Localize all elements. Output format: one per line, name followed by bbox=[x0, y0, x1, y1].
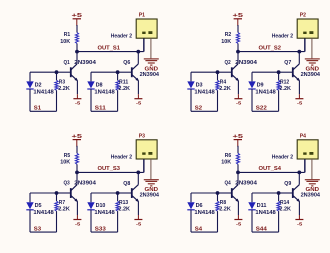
svg-text:S4: S4 bbox=[195, 227, 202, 233]
svg-text:R3: R3 bbox=[59, 79, 65, 85]
svg-text:1N4148: 1N4148 bbox=[94, 210, 114, 216]
svg-text:R2: R2 bbox=[225, 32, 232, 38]
svg-text:OUT_S1: OUT_S1 bbox=[98, 45, 121, 51]
svg-text:R7: R7 bbox=[59, 200, 65, 206]
svg-text:S11: S11 bbox=[95, 106, 106, 112]
svg-text:D10: D10 bbox=[96, 203, 106, 209]
svg-text:-5: -5 bbox=[297, 101, 303, 107]
svg-text:2N3904: 2N3904 bbox=[140, 193, 159, 199]
svg-text:2N3904: 2N3904 bbox=[235, 181, 258, 187]
svg-text:P1: P1 bbox=[139, 13, 145, 19]
svg-text:Header 2: Header 2 bbox=[272, 154, 293, 160]
svg-text:1N4148: 1N4148 bbox=[33, 89, 53, 95]
svg-text:GND: GND bbox=[145, 66, 159, 72]
svg-text:10K: 10K bbox=[60, 160, 70, 166]
svg-text:Q1: Q1 bbox=[64, 60, 70, 66]
svg-text:D8: D8 bbox=[96, 82, 103, 88]
svg-text:-5: -5 bbox=[297, 221, 303, 227]
svg-text:P4: P4 bbox=[300, 134, 306, 140]
svg-text:P3: P3 bbox=[139, 134, 145, 140]
svg-text:D3: D3 bbox=[196, 82, 203, 88]
svg-text:S3: S3 bbox=[34, 227, 41, 233]
svg-text:R13: R13 bbox=[119, 200, 128, 206]
svg-text:R1: R1 bbox=[64, 32, 71, 38]
svg-text:-5: -5 bbox=[75, 101, 81, 107]
svg-text:10K: 10K bbox=[60, 39, 70, 45]
svg-text:Header 2: Header 2 bbox=[111, 34, 132, 40]
svg-text:2.2K: 2.2K bbox=[58, 86, 70, 92]
svg-text:10K: 10K bbox=[221, 160, 231, 166]
svg-text:S33: S33 bbox=[95, 227, 106, 233]
svg-text:-5: -5 bbox=[136, 221, 142, 227]
svg-text:Q7: Q7 bbox=[284, 60, 291, 66]
svg-text:R11: R11 bbox=[119, 79, 128, 85]
svg-text:GND: GND bbox=[306, 66, 320, 72]
svg-text:Q8: Q8 bbox=[123, 181, 130, 187]
svg-text:P2: P2 bbox=[300, 13, 306, 19]
svg-text:2.2K: 2.2K bbox=[219, 207, 231, 213]
svg-text:S44: S44 bbox=[256, 227, 267, 233]
svg-text:D2: D2 bbox=[35, 82, 42, 88]
svg-text:Q3: Q3 bbox=[64, 181, 70, 187]
svg-text:OUT_S4: OUT_S4 bbox=[259, 166, 282, 172]
svg-text:D11: D11 bbox=[257, 203, 267, 209]
svg-text:2.2K: 2.2K bbox=[279, 207, 291, 213]
svg-text:1N4148: 1N4148 bbox=[255, 210, 275, 216]
svg-text:-5: -5 bbox=[236, 101, 242, 107]
svg-text:GND: GND bbox=[145, 187, 159, 193]
svg-text:D6: D6 bbox=[196, 203, 203, 209]
svg-text:2N3904: 2N3904 bbox=[301, 72, 320, 78]
svg-text:-5: -5 bbox=[236, 221, 242, 227]
svg-text:2N3904: 2N3904 bbox=[301, 193, 320, 199]
svg-text:S2: S2 bbox=[195, 106, 202, 112]
svg-text:Header 2: Header 2 bbox=[111, 154, 132, 160]
svg-text:1N4148: 1N4148 bbox=[194, 89, 214, 95]
svg-text:2.2K: 2.2K bbox=[58, 207, 70, 213]
svg-text:2N3904: 2N3904 bbox=[74, 181, 97, 187]
svg-text:10K: 10K bbox=[221, 39, 231, 45]
svg-text:Q9: Q9 bbox=[284, 181, 291, 187]
svg-text:2N3904: 2N3904 bbox=[235, 60, 258, 66]
svg-text:1N4148: 1N4148 bbox=[255, 89, 275, 95]
svg-text:D5: D5 bbox=[35, 203, 42, 209]
svg-text:S22: S22 bbox=[256, 106, 267, 112]
svg-text:-5: -5 bbox=[75, 221, 81, 227]
svg-text:2N3904: 2N3904 bbox=[140, 72, 159, 78]
svg-text:R6: R6 bbox=[225, 153, 232, 159]
svg-text:R14: R14 bbox=[280, 200, 290, 206]
svg-text:R8: R8 bbox=[220, 200, 226, 206]
svg-text:-5: -5 bbox=[136, 101, 142, 107]
svg-text:Q4: Q4 bbox=[225, 181, 232, 187]
svg-text:OUT_S3: OUT_S3 bbox=[98, 166, 121, 172]
svg-text:D9: D9 bbox=[257, 82, 264, 88]
svg-text:2.2K: 2.2K bbox=[118, 86, 130, 92]
svg-text:R12: R12 bbox=[280, 79, 289, 85]
svg-text:GND: GND bbox=[306, 187, 320, 193]
svg-text:R5: R5 bbox=[64, 153, 71, 159]
svg-text:1N4148: 1N4148 bbox=[33, 210, 53, 216]
svg-text:Q6: Q6 bbox=[123, 60, 130, 66]
svg-text:2.2K: 2.2K bbox=[118, 207, 130, 213]
svg-text:Header 2: Header 2 bbox=[272, 34, 293, 40]
svg-text:2.2K: 2.2K bbox=[219, 86, 231, 92]
svg-text:2.2K: 2.2K bbox=[279, 86, 291, 92]
svg-text:R4: R4 bbox=[220, 79, 227, 85]
svg-text:1N4148: 1N4148 bbox=[194, 210, 214, 216]
svg-text:1N4148: 1N4148 bbox=[94, 89, 114, 95]
svg-text:Q2: Q2 bbox=[225, 60, 231, 66]
svg-text:S1: S1 bbox=[34, 106, 41, 112]
svg-text:OUT_S2: OUT_S2 bbox=[259, 45, 282, 51]
svg-text:2N3904: 2N3904 bbox=[74, 60, 97, 66]
